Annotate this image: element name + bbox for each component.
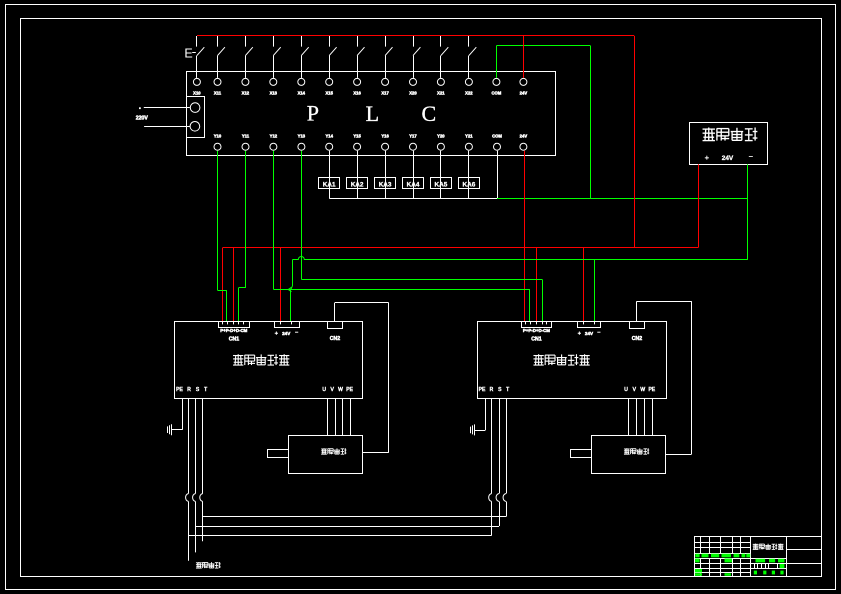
title block main vertical dividers	[750, 537, 752, 577]
wire red to drive1 CN1 pin3	[233, 248, 235, 322]
wire drive1 phase R	[188, 398, 190, 493]
svg-text:Y17: Y17	[409, 134, 417, 139]
svg-text:−: −	[749, 152, 754, 161]
svg-text:X22: X22	[465, 91, 473, 96]
PLC output terminal Y16	[381, 134, 389, 151]
svg-text:PE: PE	[648, 387, 655, 393]
wire green from PSU minus	[747, 164, 749, 260]
svg-text:KA6: KA6	[463, 181, 476, 188]
PLC input terminal X14	[298, 78, 306, 95]
wire drive2 U to motor	[628, 398, 630, 435]
wire drive1 PE to ground	[182, 398, 184, 430]
title block outline	[695, 537, 822, 577]
wire green Y10 to drive1 CN1 pin2	[217, 151, 219, 291]
PLC output terminal Y10	[214, 134, 222, 151]
PLC U1 main box	[187, 72, 556, 156]
svg-text:E: E	[184, 47, 192, 61]
wire green COM input down to common bus	[590, 46, 592, 198]
svg-text:KA5: KA5	[435, 181, 448, 188]
svg-text:−: −	[597, 330, 600, 336]
input switch S6	[329, 36, 336, 78]
svg-text:X12: X12	[242, 91, 250, 96]
svg-text:P: P	[307, 101, 319, 126]
PLC output terminal 24V	[520, 134, 528, 151]
wire drive1 T below breaker to bus and source tail	[202, 502, 204, 542]
svg-text:+: +	[705, 153, 710, 162]
svg-text:24V: 24V	[520, 134, 528, 139]
PLC output terminal COM	[492, 134, 502, 151]
PLC output terminal Y15	[353, 134, 361, 151]
svg-text:PE: PE	[479, 387, 486, 393]
input switch S1	[197, 36, 205, 78]
svg-text:R: R	[490, 387, 494, 393]
drive2 connector CN1 box	[522, 322, 552, 328]
input switch S5	[301, 36, 308, 78]
input switch S4	[273, 36, 280, 78]
svg-text:CN1: CN1	[531, 337, 541, 343]
relay coil KA4	[403, 151, 424, 198]
wire relay common bus white	[329, 198, 497, 200]
drive1 24V connector box	[275, 322, 300, 328]
input switch S11	[469, 36, 477, 78]
svg-text:X16: X16	[353, 91, 361, 96]
svg-text:COM: COM	[492, 134, 502, 139]
wire drive2 phase R	[491, 398, 493, 493]
label drive1 si-fu-qu-dong-qi	[233, 355, 243, 357]
svg-text:Y15: Y15	[353, 134, 361, 139]
svg-text:Y11: Y11	[242, 134, 250, 139]
ground symbol drive1	[171, 424, 173, 435]
breaker QF1 arcs	[186, 494, 189, 502]
PLC output terminal Y17	[409, 134, 417, 151]
PLC input terminal X12	[242, 78, 250, 95]
PLC power input sub-box	[187, 97, 205, 138]
svg-text:+: +	[275, 331, 278, 337]
drive2 24V connector box	[578, 322, 601, 328]
svg-text:L: L	[366, 101, 379, 126]
svg-text:X21: X21	[437, 91, 445, 96]
wire drive1 R below breaker to bus and source tail	[188, 502, 190, 561]
relay coil KA1	[319, 151, 340, 198]
PLC input terminal 24V	[520, 78, 528, 95]
PLC AC supply terminal N	[190, 122, 200, 132]
svg-text:X17: X17	[381, 91, 389, 96]
wire red PLC 24V output to drive2 CN1 pin1	[524, 151, 526, 322]
svg-text:CN2: CN2	[632, 336, 642, 342]
svg-text:PE: PE	[346, 387, 353, 393]
svg-text:C: C	[421, 101, 436, 126]
svg-text:PE: PE	[176, 387, 183, 393]
wire red +24V top bus	[197, 35, 634, 37]
wire drive1 S below breaker to bus and source tail	[195, 502, 197, 553]
PLC input terminal X20	[409, 78, 417, 95]
input switch S10	[441, 36, 449, 78]
wire drive2 encoder CN2 loop	[636, 301, 638, 321]
relay coil KA2	[347, 151, 368, 198]
svg-text:Y10: Y10	[214, 134, 222, 139]
svg-text:24V: 24V	[282, 331, 291, 336]
svg-text:U: U	[624, 387, 628, 393]
title block middle row dividers	[751, 558, 787, 560]
wire drive1 phase S	[195, 398, 197, 493]
label PSU kai-guan-dian-yuan	[703, 128, 715, 130]
svg-text:R: R	[187, 387, 191, 393]
PLC input terminal X11	[214, 78, 222, 95]
wire drive1 PE to motor	[350, 398, 352, 435]
relay coil KA3	[375, 151, 396, 198]
svg-text:Y21: Y21	[465, 134, 473, 139]
svg-text:CN2: CN2	[330, 336, 340, 342]
wire drive2 R below breaker to bus	[491, 502, 493, 536]
svg-text:KA2: KA2	[351, 181, 364, 188]
input switch S2	[218, 36, 225, 78]
svg-text:Y13: Y13	[298, 134, 306, 139]
title block right section rows	[786, 549, 821, 551]
svg-text:KA1: KA1	[323, 181, 336, 188]
label three-phase AC source	[196, 562, 202, 564]
wire drive2 phase S	[499, 398, 501, 493]
wire three-phase bus L3	[189, 535, 492, 537]
svg-text:X15: X15	[325, 91, 333, 96]
PLC input terminal X13	[270, 78, 278, 95]
svg-text:X20: X20	[409, 91, 417, 96]
PLC output terminal Y13	[298, 134, 306, 151]
servo motor M1 box	[289, 436, 363, 474]
PLC input terminal X21	[437, 78, 445, 95]
wire green 24V minus to drive2	[594, 260, 596, 322]
svg-text:X10: X10	[193, 91, 201, 96]
servo drive U3 box	[478, 322, 667, 399]
svg-text:X14: X14	[298, 91, 306, 96]
wire drive2 PE to motor	[652, 398, 654, 435]
relay coil KA6	[459, 151, 480, 198]
servo motor M2 shaft	[571, 450, 592, 458]
wire COM output terminal down	[497, 151, 499, 198]
wire green COM input vertical at X COM terminal	[496, 46, 498, 78]
drive2 connector CN2 box	[630, 322, 645, 329]
svg-text:24V: 24V	[585, 331, 594, 336]
wire drive2 W to motor	[644, 398, 646, 435]
label motor2 si-fu-dian-ji	[624, 448, 630, 450]
svg-text:KA3: KA3	[379, 181, 392, 188]
wire red bus drop from top	[634, 36, 636, 248]
title block sheet count green marks	[754, 571, 757, 575]
label drive2 si-fu-qu-dong-qi	[533, 355, 543, 357]
wire drive2 S below breaker to bus	[499, 502, 501, 527]
PLC output terminal Y20	[437, 134, 445, 151]
wire green common bus to power supply minus	[497, 198, 748, 200]
PLC input terminal X16	[353, 78, 361, 95]
svg-text:−: −	[295, 330, 298, 336]
wire red horizontal 24V+ bus	[223, 247, 699, 249]
wire drive1 phase T	[202, 398, 204, 493]
svg-text:T: T	[506, 387, 509, 393]
servo motor M2 box	[592, 436, 666, 474]
title block left grid columns	[700, 537, 702, 554]
wire green Y12 to drive2 CN1 pin2	[273, 151, 275, 290]
node AC source dot	[139, 107, 141, 109]
PLC output terminal Y11	[242, 134, 250, 151]
wire drive1 U to motor	[327, 398, 329, 435]
svg-text:W: W	[338, 387, 343, 393]
input switch S7	[357, 36, 364, 78]
label motor1 si-fu-dian-ji	[321, 448, 327, 450]
svg-text:W: W	[640, 387, 645, 393]
svg-text:+: +	[578, 331, 581, 337]
wire green COM input horizontal top	[496, 45, 590, 47]
servo motor M1 shaft	[268, 450, 289, 458]
PLC input terminal COM	[492, 78, 502, 95]
svg-text:Y16: Y16	[381, 134, 389, 139]
wire drive1 encoder CN2 loop	[334, 303, 336, 322]
PLC input terminal X15	[325, 78, 333, 95]
wire green 24V minus distribution bus	[293, 257, 748, 260]
input switch S9	[413, 36, 420, 78]
svg-text:Y12: Y12	[270, 134, 278, 139]
wire red to drive1 CN1 pin1	[222, 248, 224, 322]
svg-text:24V: 24V	[520, 91, 528, 96]
title block weight scale cells	[754, 563, 756, 568]
breaker QF2 arcs	[489, 494, 492, 502]
wire green Y13 to drive2 CN1 pin4	[301, 151, 303, 280]
svg-text:COM: COM	[492, 91, 502, 96]
wire drive1 V to motor	[335, 398, 337, 435]
svg-text:Y14: Y14	[325, 134, 333, 139]
wire three-phase bus L2	[196, 526, 500, 528]
PLC input terminal X17	[381, 78, 389, 95]
svg-text:KA4: KA4	[407, 181, 420, 188]
svg-text:P+P-D+D-CM: P+P-D+D-CM	[220, 328, 247, 333]
wire AC N to PLC	[144, 126, 190, 128]
drive1 connector CN2 box	[328, 322, 343, 329]
wire drive1 W to motor	[342, 398, 344, 435]
wire three-phase bus L1	[203, 516, 506, 518]
title block drawing title text	[753, 543, 759, 545]
title block green cells left column	[695, 559, 700, 563]
wire drive2 PE to ground	[485, 398, 487, 430]
relay coil KA5	[431, 151, 452, 198]
drive1 connector CN1 box	[219, 322, 250, 328]
wire red to drive2 24V plus	[583, 248, 585, 322]
wire AC L to PLC	[144, 107, 190, 109]
svg-text:X13: X13	[270, 91, 278, 96]
PLC output terminal Y14	[325, 134, 333, 151]
svg-text:U: U	[322, 387, 326, 393]
svg-text:24V: 24V	[722, 155, 734, 162]
PLC output terminal Y21	[465, 134, 473, 151]
PLC input terminal X22	[465, 78, 473, 95]
svg-text:Y20: Y20	[437, 134, 445, 139]
PLC AC supply terminal L	[190, 103, 200, 113]
wire red to drive2 CN1 pin3	[536, 248, 538, 322]
wire drive2 phase T	[506, 398, 508, 493]
PLC input terminal X10	[193, 78, 201, 95]
svg-text:X11: X11	[214, 91, 222, 96]
title block left grid rows	[695, 542, 751, 544]
svg-text:P+P-D+D-CM: P+P-D+D-CM	[523, 328, 550, 333]
ground symbol drive2	[474, 424, 476, 435]
input switch S8	[385, 36, 392, 78]
svg-text:T: T	[204, 387, 207, 393]
wire red from PSU plus	[698, 164, 700, 247]
wire drive2 V to motor	[636, 398, 638, 435]
svg-text:CN1: CN1	[229, 337, 239, 343]
wire green Y11 to drive1 CN1 pin4	[245, 151, 247, 288]
wire green 24V minus to drive1	[291, 260, 293, 322]
title block green revision row	[695, 554, 699, 558]
servo drive U2 box	[175, 322, 363, 399]
title block green stage mark labels	[756, 559, 766, 563]
PLC output terminal Y12	[270, 134, 278, 151]
svg-text:220V: 220V	[136, 115, 149, 121]
switching power supply PSU box	[690, 123, 768, 165]
wire red 24V input terminal to bus	[523, 36, 525, 78]
wire drive2 T below breaker to bus	[506, 502, 508, 517]
wire red to drive1 24V plus	[280, 248, 282, 322]
input switch S3	[245, 36, 252, 78]
